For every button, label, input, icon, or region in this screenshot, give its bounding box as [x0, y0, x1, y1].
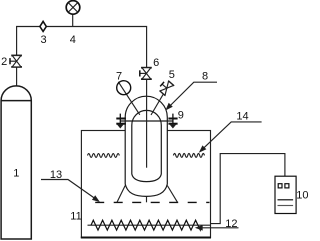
svg-text:12: 12	[225, 218, 237, 230]
svg-text:4: 4	[70, 34, 76, 46]
svg-text:10: 10	[296, 190, 308, 202]
svg-text:11: 11	[70, 210, 81, 222]
svg-text:9: 9	[178, 109, 184, 121]
svg-text:6: 6	[153, 57, 159, 69]
svg-text:8: 8	[202, 70, 208, 82]
svg-text:2: 2	[1, 56, 7, 68]
svg-text:5: 5	[169, 69, 175, 81]
svg-text:1: 1	[13, 168, 19, 180]
svg-text:3: 3	[40, 34, 46, 46]
svg-text:7: 7	[116, 71, 122, 83]
svg-text:13: 13	[50, 169, 62, 181]
svg-text:14: 14	[236, 111, 248, 123]
